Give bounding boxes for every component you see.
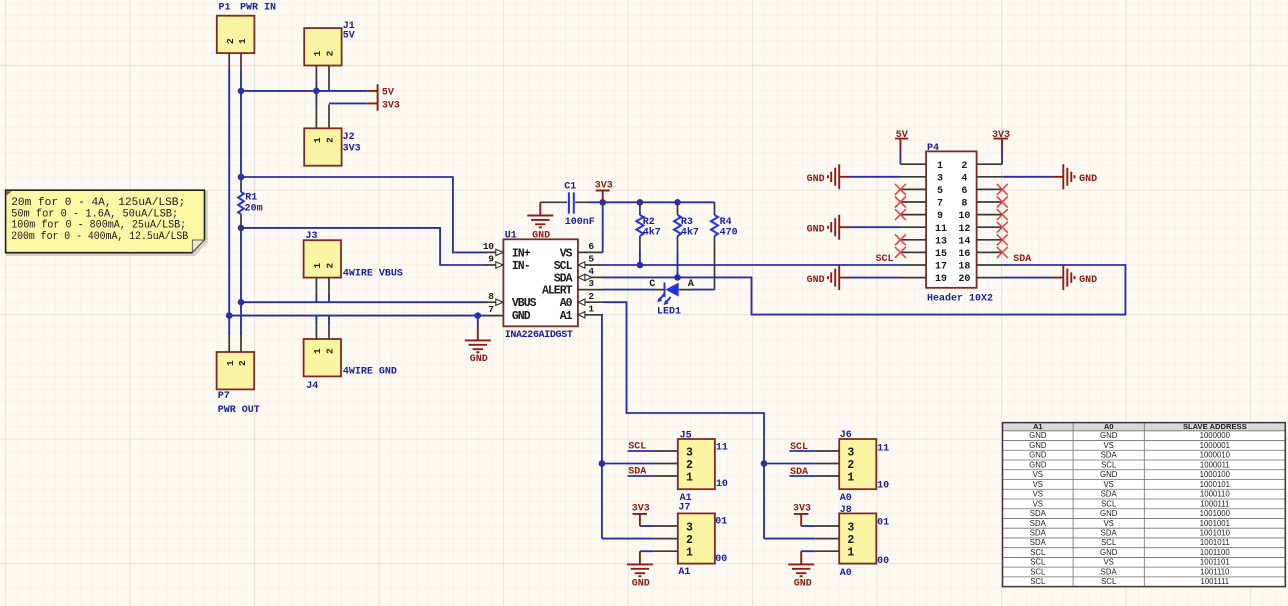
- svg-text:IN-: IN-: [512, 260, 530, 273]
- svg-text:1: 1: [588, 303, 594, 314]
- note/comment box: [6, 190, 207, 255]
- svg-text:VS: VS: [1103, 441, 1113, 450]
- svg-text:1000010: 1000010: [1200, 451, 1231, 460]
- svg-text:1001011: 1001011: [1200, 538, 1230, 547]
- svg-text:2: 2: [225, 38, 236, 44]
- svg-text:SDA: SDA: [1030, 529, 1047, 538]
- no-connect X P4 pin12: [997, 222, 1008, 233]
- svg-text:GND: GND: [1079, 174, 1097, 185]
- power symbol 3V3 at J7: [632, 504, 654, 526]
- svg-text:SDA: SDA: [1013, 254, 1031, 265]
- svg-text:1: 1: [312, 50, 323, 56]
- LED LED1: [649, 279, 694, 318]
- svg-text:A0: A0: [1104, 422, 1114, 431]
- svg-text:A1: A1: [1033, 422, 1043, 431]
- U1 right pin stubs (6,5,4,3,2,1): [578, 252, 603, 314]
- svg-text:GND: GND: [1100, 509, 1118, 518]
- jumper J4 4WIRE GND: [304, 323, 397, 392]
- svg-text:J6: J6: [840, 430, 852, 441]
- svg-text:IN+: IN+: [512, 247, 531, 260]
- svg-text:6: 6: [588, 241, 594, 252]
- wire GND net to U1 pin7: [229, 315, 486, 317]
- svg-text:GND: GND: [1100, 431, 1118, 440]
- svg-text:1000111: 1000111: [1200, 499, 1229, 508]
- svg-text:4k7: 4k7: [643, 227, 661, 239]
- svg-text:J4: J4: [306, 381, 318, 392]
- svg-text:GND: GND: [1029, 431, 1047, 440]
- svg-text:3V3: 3V3: [793, 504, 811, 515]
- wire SCL net U1 pin5 to P4 pin17: [603, 264, 900, 266]
- svg-text:J2: J2: [343, 132, 355, 143]
- U1 left pin stubs (10,9,8,7): [486, 252, 503, 315]
- svg-text:SDA: SDA: [1101, 490, 1118, 499]
- no-connect X P4 pin9: [895, 209, 906, 220]
- wire VS drop from rail to U1 pin6: [602, 202, 604, 252]
- svg-text:GND: GND: [794, 579, 812, 590]
- svg-text:U1: U1: [505, 231, 517, 242]
- P4 left pin stubs: [900, 164, 926, 277]
- ground symbol below U1: [465, 316, 491, 365]
- svg-text:3V3: 3V3: [632, 504, 650, 515]
- svg-text:VS: VS: [1103, 480, 1113, 489]
- svg-text:20m for 0 - 4A, 125uA/LSB;: 20m for 0 - 4A, 125uA/LSB;: [11, 197, 185, 209]
- svg-text:2: 2: [325, 137, 336, 143]
- svg-text:J8: J8: [840, 505, 852, 516]
- svg-text:SCL: SCL: [1101, 538, 1117, 547]
- svg-text:19: 19: [935, 274, 947, 285]
- svg-text:4WIRE GND: 4WIRE GND: [343, 367, 397, 378]
- connector P1: [217, 3, 276, 71]
- svg-text:SCL: SCL: [1101, 499, 1117, 508]
- U1 pin 2 arrow (input): [578, 299, 585, 305]
- svg-text:2: 2: [325, 262, 336, 268]
- svg-text:20: 20: [958, 274, 970, 285]
- capacitor C1 100nF: [540, 182, 594, 229]
- svg-text:1000001: 1000001: [1200, 441, 1230, 450]
- no-connect X P4 pin6: [997, 184, 1008, 195]
- svg-text:SCL: SCL: [790, 442, 808, 453]
- U1 pin 10 input arrow: [496, 249, 503, 255]
- svg-text:1000100: 1000100: [1200, 470, 1231, 479]
- svg-text:11: 11: [877, 444, 889, 455]
- svg-text:SDA: SDA: [1101, 529, 1118, 538]
- junction J1 pin1 / 5V row: [313, 88, 320, 95]
- IC U1 INA226AIDGST: [503, 231, 578, 342]
- svg-text:J7: J7: [678, 503, 690, 514]
- svg-text:GND: GND: [512, 310, 531, 323]
- svg-text:10: 10: [958, 211, 970, 222]
- svg-text:VS: VS: [560, 247, 573, 260]
- svg-text:GND: GND: [1100, 548, 1118, 557]
- P4 right pin stubs: [977, 164, 1003, 277]
- svg-text:J3: J3: [306, 231, 318, 242]
- wire J1 pin1 drop to 5V row and down to J2 pin1: [315, 82, 317, 110]
- svg-text:P7: P7: [218, 391, 230, 402]
- jumper J7: [653, 503, 727, 579]
- svg-text:SDA: SDA: [1030, 519, 1047, 528]
- svg-text:PWR OUT: PWR OUT: [218, 405, 260, 416]
- wire J4 pin rises to GND: [316, 316, 329, 324]
- power symbol 5V (top): [367, 84, 394, 98]
- svg-text:SCL: SCL: [1030, 558, 1046, 567]
- net label SDA at J5: [628, 467, 654, 478]
- svg-text:100nF: 100nF: [565, 217, 595, 228]
- power symbol 3V3 at J8: [793, 504, 815, 526]
- svg-text:2: 2: [325, 50, 336, 56]
- svg-text:1: 1: [312, 348, 323, 354]
- svg-text:1001111: 1001111: [1200, 577, 1229, 586]
- svg-text:17: 17: [935, 262, 947, 273]
- svg-text:VS: VS: [1103, 558, 1113, 567]
- svg-text:A1: A1: [560, 310, 573, 323]
- junction R1 bottom: [238, 225, 245, 232]
- svg-text:13: 13: [935, 236, 947, 247]
- wire P4 pin11 to GND: [851, 226, 901, 228]
- wire P4 pin4 to GND: [1002, 176, 1051, 178]
- wire main column P1 pin1 to P7 pin2 (through R1): [240, 70, 242, 334]
- svg-text:SDA: SDA: [1101, 451, 1118, 460]
- net label SCL at J6: [790, 442, 816, 453]
- svg-text:14: 14: [958, 236, 970, 247]
- svg-text:12: 12: [958, 224, 970, 235]
- svg-text:VS: VS: [1033, 480, 1043, 489]
- svg-text:GND: GND: [807, 275, 825, 286]
- svg-text:P4: P4: [927, 143, 939, 154]
- svg-text:SCL: SCL: [1030, 567, 1046, 576]
- header P4 box: [926, 143, 993, 304]
- svg-text:GND: GND: [1079, 275, 1097, 286]
- svg-text:C: C: [649, 279, 655, 290]
- junction A1 at J5 pin2: [599, 460, 606, 467]
- no-connect X P4 pin7: [895, 197, 906, 208]
- junction SDA at R3: [674, 274, 681, 281]
- wire P4 pin19 to GND: [851, 277, 901, 279]
- svg-text:VS: VS: [1033, 470, 1043, 479]
- wire J3 pin drops to VBUS: [316, 294, 329, 302]
- wire A0 net U1 pin2 to J6/J8: [603, 302, 815, 538]
- jumper J6: [815, 430, 889, 504]
- svg-text:00: 00: [877, 556, 889, 567]
- wire 5V row from P1 to power symbol: [241, 90, 367, 92]
- svg-text:R3: R3: [681, 217, 693, 228]
- svg-text:ALERT: ALERT: [542, 285, 573, 298]
- svg-text:LED1: LED1: [657, 307, 681, 318]
- resistor R3 4k7: [674, 202, 699, 277]
- ground symbol left of P4 pin3: [807, 164, 851, 189]
- svg-text:4WIRE VBUS: 4WIRE VBUS: [343, 268, 403, 279]
- svg-text:GND: GND: [807, 224, 825, 235]
- svg-text:5: 5: [937, 186, 943, 197]
- power symbol 3V3 at P4 pin2: [992, 130, 1010, 164]
- svg-text:SCL: SCL: [876, 254, 894, 265]
- svg-text:9: 9: [488, 254, 494, 265]
- svg-text:1: 1: [225, 360, 236, 366]
- svg-text:11: 11: [716, 442, 728, 453]
- svg-text:SCL: SCL: [1030, 577, 1046, 586]
- svg-text:A0: A0: [840, 568, 852, 579]
- svg-text:4: 4: [961, 173, 967, 184]
- svg-text:1000110: 1000110: [1200, 490, 1230, 499]
- svg-text:SDA: SDA: [554, 272, 573, 285]
- P4 pin numbers left column: [935, 161, 947, 285]
- svg-text:SDA: SDA: [1030, 538, 1047, 547]
- svg-text:SCL: SCL: [1030, 548, 1046, 557]
- wire P4 pin20 to GND: [1002, 277, 1051, 279]
- svg-text:3: 3: [588, 278, 594, 289]
- svg-text:J5: J5: [680, 430, 692, 441]
- svg-text:VS: VS: [1103, 519, 1113, 528]
- wire GND column P1 pin2 to P7 pin1: [228, 70, 230, 334]
- svg-text:VS: VS: [1033, 499, 1043, 508]
- svg-text:SDA: SDA: [1030, 509, 1047, 518]
- wire A1 net U1 pin1 to J5/J7: [602, 315, 653, 539]
- U1 pin 9 input arrow: [496, 262, 503, 268]
- svg-text:200m for 0 - 400mA, 12.5uA/LSB: 200m for 0 - 400mA, 12.5uA/LSB: [11, 231, 188, 243]
- svg-text:1001101: 1001101: [1200, 558, 1230, 567]
- resistor R4 470: [711, 202, 738, 289]
- svg-text:SCL: SCL: [1101, 577, 1117, 586]
- junction P1 pin1 / 5V row: [238, 88, 245, 95]
- svg-text:3V3: 3V3: [595, 180, 613, 191]
- svg-text:A: A: [688, 279, 694, 290]
- svg-text:SCL: SCL: [1101, 460, 1117, 469]
- svg-text:9: 9: [937, 211, 943, 222]
- svg-text:P1: P1: [219, 3, 231, 14]
- svg-text:SCL: SCL: [628, 441, 646, 452]
- svg-text:C1: C1: [564, 182, 576, 193]
- wire P4 pin3 to GND: [851, 176, 901, 178]
- P4 pin numbers right column: [958, 161, 970, 285]
- svg-text:1: 1: [237, 38, 248, 44]
- wire SDA net U1 pin4 to P4 pin18: [603, 265, 1125, 315]
- svg-text:01: 01: [877, 517, 889, 528]
- svg-text:GND: GND: [807, 174, 825, 185]
- svg-text:SDA: SDA: [628, 467, 646, 478]
- svg-text:1001000: 1001000: [1200, 509, 1231, 518]
- svg-text:PWR IN: PWR IN: [240, 3, 276, 14]
- ground symbol left of P4 pin11: [807, 215, 851, 240]
- ground symbol at J8: [788, 551, 815, 589]
- svg-text:7: 7: [937, 199, 943, 210]
- svg-text:SDA: SDA: [1101, 567, 1118, 576]
- net label SCL at J5: [628, 441, 654, 452]
- svg-text:11: 11: [935, 224, 947, 235]
- jumper J8: [815, 505, 889, 579]
- net label SDA at J6: [790, 467, 816, 478]
- wire IN+ net: [241, 177, 487, 252]
- svg-text:1000101: 1000101: [1200, 480, 1230, 489]
- svg-text:A0: A0: [560, 297, 573, 310]
- svg-text:4k7: 4k7: [681, 227, 699, 239]
- svg-text:1000011: 1000011: [1200, 460, 1230, 469]
- svg-text:SLAVE ADDRESS: SLAVE ADDRESS: [1183, 422, 1247, 431]
- jumper J1 5V: [304, 21, 355, 90]
- svg-text:GND: GND: [1029, 460, 1047, 469]
- U1 pin 4 arrows (bidirectional): [578, 274, 591, 280]
- svg-text:01: 01: [715, 517, 727, 528]
- jumper J5: [653, 430, 728, 504]
- svg-text:VS: VS: [1033, 490, 1043, 499]
- svg-text:16: 16: [958, 249, 970, 260]
- svg-text:5V: 5V: [896, 130, 908, 141]
- wire VBUS net: [241, 301, 487, 303]
- svg-text:1001001: 1001001: [1200, 519, 1230, 528]
- wire C1/3V3 rail: [588, 201, 715, 203]
- resistor R2 4k7: [636, 202, 660, 265]
- svg-text:2: 2: [588, 291, 594, 302]
- svg-text:3V3: 3V3: [382, 100, 400, 111]
- svg-text:SDA: SDA: [790, 467, 808, 478]
- svg-text:7: 7: [488, 304, 494, 315]
- U1 pin 5 arrow (input): [578, 262, 585, 268]
- svg-text:8: 8: [961, 199, 967, 210]
- no-connect X P4 pin14: [997, 234, 1008, 245]
- svg-text:2: 2: [237, 360, 248, 366]
- svg-text:3V3: 3V3: [343, 144, 361, 155]
- svg-text:A1: A1: [678, 567, 690, 578]
- power symbol 5V at P4 pin1: [895, 130, 908, 164]
- svg-text:20m: 20m: [245, 204, 263, 215]
- svg-text:100m for 0 - 800mA, 25uA/LSB;: 100m for 0 - 800mA, 25uA/LSB;: [11, 220, 186, 232]
- ground symbol left of P4 pin19: [807, 265, 851, 290]
- junction A0 at J6 pin2: [761, 460, 768, 467]
- power symbol 3V3 at rail: [595, 180, 613, 202]
- svg-text:5: 5: [588, 254, 594, 265]
- junction 3V3 rail at VS drop: [599, 199, 606, 206]
- svg-text:1: 1: [937, 161, 943, 172]
- connector P7 PWR OUT: [217, 333, 260, 416]
- svg-text:R4: R4: [720, 217, 732, 228]
- U1 pin 1 arrow (input): [578, 312, 585, 318]
- svg-text:5V: 5V: [343, 31, 355, 42]
- wire ALERT to LED cathode: [603, 289, 655, 291]
- svg-text:1000000: 1000000: [1200, 431, 1231, 440]
- junction VBUS column: [238, 299, 245, 306]
- svg-text:INA226AIDGST: INA226AIDGST: [505, 330, 573, 341]
- junction rail at R2: [637, 199, 644, 206]
- svg-text:1: 1: [312, 137, 323, 143]
- jumper J3 4WIRE VBUS: [304, 231, 403, 295]
- svg-text:3V3: 3V3: [992, 130, 1010, 141]
- wire LED anode to R4: [692, 289, 715, 291]
- ground symbol right of P4 pin20: [1051, 265, 1097, 290]
- svg-text:15: 15: [935, 249, 947, 260]
- wire IN- net: [241, 228, 487, 265]
- svg-text:50m for 0 - 1.6A, 50uA/LSB;: 50m for 0 - 1.6A, 50uA/LSB;: [11, 208, 178, 220]
- power symbol 3V3 (top): [367, 98, 400, 111]
- svg-text:GND: GND: [470, 354, 488, 365]
- no-connect X P4 pin15: [895, 247, 906, 258]
- junction rail at R3: [674, 199, 681, 206]
- ground symbol at C1: [527, 202, 553, 241]
- no-connect X P4 pin5: [895, 184, 906, 195]
- svg-text:8: 8: [488, 291, 494, 302]
- svg-text:3: 3: [937, 173, 943, 184]
- svg-text:2: 2: [325, 348, 336, 354]
- svg-text:1001110: 1001110: [1200, 567, 1230, 576]
- svg-text:18: 18: [958, 262, 970, 273]
- svg-text:GND: GND: [1029, 451, 1047, 460]
- svg-text:A0: A0: [840, 493, 852, 504]
- svg-text:00: 00: [715, 554, 727, 565]
- no-connect X P4 pin13: [895, 234, 906, 245]
- resistor R1 20m (shunt): [238, 179, 262, 227]
- junction GND net at U1: [475, 312, 482, 319]
- svg-text:R2: R2: [643, 217, 655, 228]
- svg-text:GND: GND: [632, 579, 650, 590]
- U1 pin 8 input arrow: [496, 299, 503, 305]
- svg-text:10: 10: [877, 481, 889, 492]
- svg-text:1001100: 1001100: [1200, 548, 1230, 557]
- junction GND column: [226, 312, 233, 319]
- no-connect X P4 pin10: [997, 209, 1008, 220]
- svg-text:6: 6: [961, 186, 967, 197]
- svg-text:5V: 5V: [382, 88, 394, 99]
- svg-text:470: 470: [720, 228, 738, 239]
- svg-text:GND: GND: [1100, 470, 1118, 479]
- svg-text:1001010: 1001010: [1200, 529, 1231, 538]
- jumper J2 3V3: [304, 105, 360, 166]
- svg-text:1: 1: [312, 262, 323, 268]
- svg-text:Header 10X2: Header 10X2: [927, 292, 993, 304]
- svg-text:10: 10: [483, 241, 494, 252]
- svg-text:10: 10: [716, 479, 728, 490]
- svg-text:R1: R1: [245, 192, 257, 203]
- svg-text:2: 2: [961, 161, 967, 172]
- wire 3V3 row from J2 pin2 to power symbol: [329, 102, 367, 104]
- junction R1 top: [238, 174, 245, 181]
- no-connect X P4 pin8: [997, 197, 1008, 208]
- ground symbol at J7: [627, 551, 653, 589]
- slave address table: [1003, 422, 1286, 587]
- svg-text:4: 4: [588, 266, 594, 277]
- ground symbol right of P4 pin4: [1051, 164, 1097, 189]
- junction SCL at R2: [637, 262, 644, 269]
- svg-text:GND: GND: [1029, 441, 1047, 450]
- svg-text:VBUS: VBUS: [512, 297, 537, 310]
- no-connect X P4 pin16: [997, 247, 1008, 258]
- svg-text:SCL: SCL: [554, 260, 573, 273]
